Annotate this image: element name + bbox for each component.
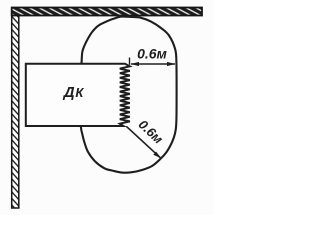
diagonal dimension line 0.6m [126, 126, 160, 157]
detector block DK (white rect, zigzag right edge) [26, 64, 130, 126]
top dimension line 0.6m [131, 63, 175, 65]
right arrowhead [167, 62, 175, 66]
protection zone oval (0.6 m boundary) [79, 17, 176, 173]
svg-text:ДК: ДК [62, 84, 85, 101]
svg-text:0.6м: 0.6м [137, 45, 167, 61]
wall left (hatched band) [12, 9, 19, 208]
svg-text:0.6м: 0.6м [136, 117, 167, 147]
dimension tick at zigzag [129, 58, 131, 65]
wall top (hatched band) [12, 8, 202, 16]
diagonal arrowhead [153, 152, 161, 159]
left arrowhead [131, 62, 139, 66]
